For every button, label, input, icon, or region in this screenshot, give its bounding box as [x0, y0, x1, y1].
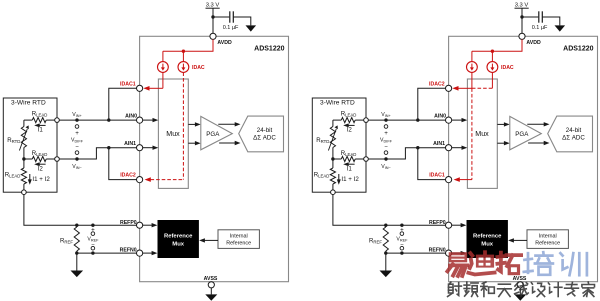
svg-text:ΔΣ ADC: ΔΣ ADC — [253, 135, 276, 142]
wire AVDD to current sources (red) — [472, 39, 522, 51]
wire IDAC2 pin to AIN0 net — [418, 88, 446, 120]
pin REFP0 — [137, 222, 143, 228]
wire AVSS to ground — [210, 288, 212, 294]
wire IDAC1 pin to AIN1 net — [418, 148, 446, 180]
node RTD lead 2 — [55, 157, 60, 162]
wire PGA to ADC (top) — [218, 123, 235, 125]
svg-text:AVDD: AVDD — [526, 40, 541, 46]
junction RTD bottom node — [331, 157, 334, 160]
svg-text:RLEAD: RLEAD — [341, 150, 357, 157]
wire REFN0 into Reference Mux — [452, 252, 462, 254]
wire IDAC2 pin to AIN1 net — [109, 148, 137, 180]
svg-text:RREF: RREF — [369, 237, 382, 244]
svg-text:I2: I2 — [347, 127, 353, 134]
resistor R_RTD (variable) — [330, 127, 335, 148]
svg-text:−: − — [75, 145, 79, 151]
resistor R_REF — [76, 225, 78, 227]
ADC 24-bit delta-sigma block — [548, 116, 593, 152]
Reference Mux block — [467, 220, 508, 258]
wire REFN0 net — [386, 252, 446, 254]
3-Wire RTD sensor box — [312, 98, 366, 192]
svg-text:Reference: Reference — [226, 240, 251, 246]
junction IDAC1 tap — [107, 118, 110, 121]
current source IDAC (left) — [467, 62, 478, 73]
resistor R_LEAD (middle lead) — [24, 158, 32, 160]
node RTD lead 1 — [364, 118, 369, 123]
wire capacitor to ground — [542, 17, 560, 25]
wire Mux to PGA (bottom) — [497, 142, 504, 144]
pin IDAC2 — [446, 85, 452, 91]
svg-text:AVSS: AVSS — [513, 276, 527, 282]
resistor R_LEAD (bottom lead) — [332, 159, 334, 168]
pin REFN0 — [446, 250, 452, 256]
wire — [23, 120, 25, 126]
watermark tagline (dark serif characters) — [448, 282, 462, 296]
wire REFN0 net — [77, 252, 137, 254]
wire R_REF to ground — [385, 253, 387, 270]
current arrow I1 + I2 — [29, 174, 31, 181]
svg-text:Internal: Internal — [230, 233, 248, 239]
svg-text:I1 + I2: I1 + I2 — [32, 176, 50, 183]
wire Internal Reference to Reference Mux — [205, 239, 219, 241]
svg-text:3-Wire RTD: 3-Wire RTD — [320, 100, 355, 107]
node RTD lead 2 — [364, 157, 369, 162]
ground (capacitor) — [555, 25, 566, 31]
svg-text:+: + — [75, 130, 79, 137]
ground (AVSS) — [514, 294, 526, 300]
svg-text:Reference: Reference — [164, 234, 193, 240]
Mux block — [467, 79, 497, 188]
circuit 2 (right): ADS1220 measuring 3-wire RTD, IDAC2 to AIN0 line — [312, 3, 597, 301]
watermark logo: yi (red) — [447, 252, 467, 276]
resistor R_LEAD (top lead) — [24, 119, 32, 121]
wire PGA to ADC (bottom) — [528, 142, 544, 144]
junction R_REF bottom — [384, 251, 387, 254]
svg-text:24-bit: 24-bit — [566, 127, 582, 134]
svg-text:+: + — [384, 130, 388, 137]
watermark logo: xun (blue) — [560, 253, 587, 275]
junction IDAC2 tap — [416, 118, 419, 121]
wire 3.3V to AVDD — [521, 8, 523, 33]
svg-text:Mux: Mux — [172, 241, 185, 247]
svg-text:RLEAD: RLEAD — [314, 171, 330, 178]
wire RTD lead3 to REFP0 — [333, 195, 446, 226]
junction red supply — [491, 50, 494, 53]
svg-text:3-Wire RTD: 3-Wire RTD — [11, 100, 46, 107]
pin AIN1 — [446, 145, 452, 151]
current arrow I1 + I2 — [338, 174, 340, 181]
IC U1 ADS1220 body — [140, 36, 289, 281]
resistor R_REF — [385, 225, 387, 227]
Mux block — [158, 79, 188, 188]
wire Mux to PGA (bottom) — [188, 142, 195, 144]
watermark logo: pei (blue) — [524, 252, 553, 275]
pin AVSS — [208, 282, 214, 288]
junction V_IN- tap — [384, 157, 387, 160]
pin REFN0 — [137, 250, 143, 256]
wire AIN1 into Mux — [452, 147, 463, 149]
node V_REF — [91, 224, 94, 227]
svg-text:AIN0: AIN0 — [434, 113, 446, 119]
pin IDAC2 — [137, 177, 143, 183]
node V_REF — [400, 224, 403, 227]
resistor R_LEAD (top lead) — [333, 119, 341, 121]
wire IDAC source to IDAC2 pin (red) — [491, 72, 493, 88]
wire AIN0 into Mux — [452, 119, 463, 121]
pin IDAC1 — [446, 177, 452, 183]
pin AIN0 — [137, 117, 143, 123]
watermark logo: tuo (red) — [497, 253, 521, 276]
pin AIN0 — [446, 117, 452, 123]
resistor R_LEAD (bottom lead) — [23, 159, 25, 168]
svg-text:IDAC1: IDAC1 — [120, 81, 136, 87]
svg-text:I1: I1 — [347, 165, 353, 172]
Internal Reference block — [218, 230, 259, 249]
svg-text:REFN0: REFN0 — [429, 247, 446, 253]
svg-text:ADS1220: ADS1220 — [254, 46, 284, 53]
svg-text:RREF: RREF — [60, 237, 73, 244]
svg-text:Mux: Mux — [475, 130, 489, 138]
svg-text:I1 + I2: I1 + I2 — [341, 176, 359, 183]
watermark logo: di (red) — [468, 252, 494, 274]
junction IDAC1 tap — [416, 146, 419, 149]
wire capacitor to ground — [233, 17, 251, 25]
svg-text:AIN1: AIN1 — [433, 141, 445, 147]
junction R_REF top — [384, 224, 387, 227]
svg-text:PGA: PGA — [206, 131, 220, 138]
svg-text:24-bit: 24-bit — [257, 127, 273, 134]
wire RTD lead2 to AIN1 — [368, 148, 445, 159]
amplifier PGA — [510, 116, 542, 149]
wire — [23, 148, 25, 160]
junction red supply — [182, 50, 185, 53]
svg-text:REFN0: REFN0 — [120, 247, 137, 253]
junction V_IN+ tap — [384, 118, 387, 121]
svg-text:I2: I2 — [38, 165, 44, 172]
wire REFP0 into Reference Mux — [452, 224, 462, 226]
svg-text:IDAC2: IDAC2 — [429, 81, 445, 87]
svg-text:ΔΣ ADC: ΔΣ ADC — [562, 135, 585, 142]
wire AVSS to ground — [519, 288, 521, 294]
node RTD lead 1 — [55, 118, 60, 123]
wire — [332, 148, 334, 160]
pin REFP0 — [446, 222, 452, 228]
ADC 24-bit delta-sigma block — [239, 116, 284, 152]
junction RTD bottom node — [22, 157, 25, 160]
pin AIN1 — [137, 145, 143, 151]
wire RTD lead1 to AIN0 — [368, 119, 445, 121]
wire AIN0 into Mux — [143, 119, 154, 121]
node V_DIFF — [384, 125, 388, 129]
wire AVDD to current sources (red) — [163, 39, 213, 51]
svg-text:RLEAD: RLEAD — [32, 110, 48, 117]
svg-text:AIN0: AIN0 — [125, 113, 137, 119]
svg-text:Mux: Mux — [166, 130, 180, 138]
ground (capacitor) — [246, 25, 257, 31]
wire to capacitor — [213, 16, 229, 18]
junction V_IN+ tap — [75, 118, 78, 121]
wire 3.3V to AVDD — [212, 8, 214, 33]
current source IDAC (right) — [178, 62, 189, 73]
amplifier PGA — [201, 116, 233, 149]
wire IDAC source to IDAC1 pin (red solid) — [162, 72, 164, 88]
junction V_IN- tap — [75, 157, 78, 160]
Internal Reference block — [527, 230, 568, 249]
wire R_REF to ground — [76, 253, 78, 270]
wire Internal Reference to Reference Mux — [514, 239, 528, 241]
wire RTD lead3 to REFP0 — [24, 195, 137, 226]
Reference Mux block — [158, 220, 199, 258]
svg-text:IDAC: IDAC — [501, 65, 514, 71]
svg-text:PGA: PGA — [515, 131, 529, 138]
wire AIN1 into Mux — [143, 147, 154, 149]
current source IDAC (right) — [487, 62, 498, 73]
svg-text:−: − — [384, 145, 388, 151]
resistor R_LEAD (middle lead) — [333, 158, 341, 160]
ground (reference) — [71, 271, 84, 278]
junction R_REF top — [75, 224, 78, 227]
wire REFP0 into Reference Mux — [143, 224, 153, 226]
pin AVDD — [519, 33, 525, 39]
ground (reference) — [380, 271, 393, 278]
node V_DIFF — [75, 125, 79, 129]
svg-text:0.1 µF: 0.1 µF — [223, 25, 239, 31]
svg-text:IDAC2: IDAC2 — [120, 173, 136, 179]
svg-text:Reference: Reference — [473, 234, 502, 240]
current arrow I2 — [39, 163, 46, 165]
junction IDAC2 tap — [107, 146, 110, 149]
wire — [332, 120, 334, 126]
svg-text:RLEAD: RLEAD — [341, 110, 357, 117]
svg-text:AVDD: AVDD — [217, 40, 232, 46]
IC U2 ADS1220 body — [449, 36, 598, 281]
resistor R_RTD (variable) — [21, 127, 26, 148]
svg-text:0.1 µF: 0.1 µF — [532, 25, 548, 31]
circuit 1 (left): ADS1220 measuring 3-wire RTD, IDAC1 to AIN0 line — [3, 3, 288, 301]
wire RTD lead1 to AIN0 — [59, 119, 136, 121]
wire Mux to PGA (top) — [497, 123, 504, 125]
wire IDAC source to IDAC2 pin (red dashed) — [182, 72, 184, 179]
capacitor C 0.1uF — [229, 11, 231, 22]
junction supply/capacitor — [520, 15, 523, 18]
wire IDAC source to IDAC1 pin (red dashed) — [471, 72, 473, 88]
wire PGA to ADC (top) — [527, 123, 544, 125]
svg-text:I1: I1 — [38, 127, 44, 134]
wire Mux to PGA (top) — [188, 123, 195, 125]
svg-text:RLEAD: RLEAD — [32, 150, 48, 157]
pin AVDD — [210, 33, 216, 39]
svg-text:IDAC1: IDAC1 — [429, 173, 445, 179]
current arrow I1 — [39, 124, 46, 126]
3-Wire RTD sensor box — [3, 98, 57, 192]
svg-text:AVSS: AVSS — [204, 276, 218, 282]
svg-text:AIN1: AIN1 — [124, 141, 136, 147]
current arrow I2 — [348, 124, 355, 126]
svg-text:RRTD: RRTD — [7, 137, 20, 144]
current source IDAC (left) — [158, 62, 169, 73]
svg-text:IDAC: IDAC — [192, 65, 205, 71]
ground (AVSS) — [205, 294, 217, 300]
wire REFN0 into Reference Mux — [143, 252, 153, 254]
node RTD lead 3 — [23, 184, 25, 190]
pin IDAC1 — [137, 85, 143, 91]
junction R_REF bottom — [75, 251, 78, 254]
svg-text:Reference: Reference — [535, 240, 560, 246]
current arrow I1 — [348, 163, 355, 165]
node RTD lead 3 — [332, 184, 334, 190]
svg-text:RLEAD: RLEAD — [5, 171, 21, 178]
wire IDAC1 pin to AIN0 net — [109, 88, 137, 120]
pin AVSS — [517, 282, 523, 288]
svg-text:Internal: Internal — [539, 233, 557, 239]
wire RTD lead2 to AIN1 — [59, 148, 136, 159]
capacitor C 0.1uF — [538, 11, 540, 22]
svg-text:ADS1220: ADS1220 — [563, 46, 593, 53]
svg-text:RRTD: RRTD — [316, 137, 329, 144]
svg-text:Mux: Mux — [481, 241, 494, 247]
wire to capacitor — [522, 16, 538, 18]
wire PGA to ADC (bottom) — [219, 142, 235, 144]
junction supply/capacitor — [211, 15, 214, 18]
